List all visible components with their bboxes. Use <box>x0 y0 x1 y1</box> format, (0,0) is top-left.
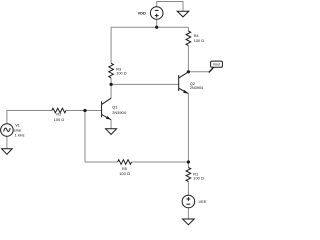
net flag Vout <box>208 67 214 73</box>
svg-text:100 Ω: 100 Ω <box>193 176 204 181</box>
svg-text:VDD: VDD <box>138 10 146 15</box>
svg-text:100 Ω: 100 Ω <box>116 71 127 76</box>
ground (Q1 emitter) <box>106 129 117 135</box>
wire R2 to Q1 base <box>66 110 102 112</box>
resistor R4 <box>186 31 191 46</box>
svg-text:2N3904: 2N3904 <box>112 110 126 115</box>
wire rail to R4 top <box>187 27 189 31</box>
voltage source VEE <box>182 195 195 208</box>
node: VDD junction <box>155 26 158 29</box>
wire node A to Q2 base <box>111 83 179 85</box>
wire R4 bottom to Q2 collector node <box>187 46 189 72</box>
svg-text:Vout: Vout <box>213 63 220 67</box>
svg-text:-VEE: -VEE <box>197 199 206 204</box>
wire R1 node to R1 top <box>187 162 189 168</box>
wire V1 top to base line <box>7 111 52 124</box>
resistor R5 <box>118 160 132 165</box>
wire rail to R3 top <box>110 27 112 63</box>
node A: R3/Q1 collector/Q2 base <box>110 83 113 86</box>
wire V1 bottom to ground <box>6 136 8 148</box>
node: Vout junction <box>187 70 190 73</box>
svg-text:1 kHz: 1 kHz <box>15 132 25 137</box>
wire Q1 emitter to ground <box>110 120 112 129</box>
ground (bottom) <box>183 219 195 225</box>
wire VDD rail <box>111 26 188 28</box>
resistor R2 <box>52 108 66 113</box>
wire VEE source to ground <box>187 208 189 219</box>
ground (top right) <box>177 11 189 17</box>
svg-text:100 Ω: 100 Ω <box>119 171 130 176</box>
voltage source VDD <box>150 7 163 20</box>
node: R5/R1 junction <box>187 160 190 163</box>
transistor Q1 <box>102 98 112 120</box>
node: base/R5 junction <box>83 109 86 112</box>
ground (V1) <box>2 149 13 155</box>
voltage source V1 <box>1 124 14 137</box>
wire base node down to bottom line <box>84 111 86 163</box>
resistor R3 <box>109 63 114 78</box>
wire node A to Q1 collector <box>110 84 112 98</box>
wire R3 bottom to node A <box>110 78 112 85</box>
svg-text:100 Ω: 100 Ω <box>54 117 65 122</box>
wire Q2 emitter down to R1 node <box>187 94 189 163</box>
wire R1 bottom to VEE source <box>187 182 189 196</box>
wire bottom line left to R5 <box>85 161 118 163</box>
svg-text:2N3904: 2N3904 <box>190 85 204 90</box>
transistor Q2 <box>179 72 189 94</box>
wire VDD source top to ground <box>157 2 183 12</box>
wire Q2 collector node to Vout <box>188 71 209 73</box>
wire VDD source bottom to rail <box>156 19 158 27</box>
svg-text:100 Ω: 100 Ω <box>194 38 205 43</box>
wire R5 to R1 node <box>132 161 189 163</box>
resistor R1 <box>186 168 191 182</box>
